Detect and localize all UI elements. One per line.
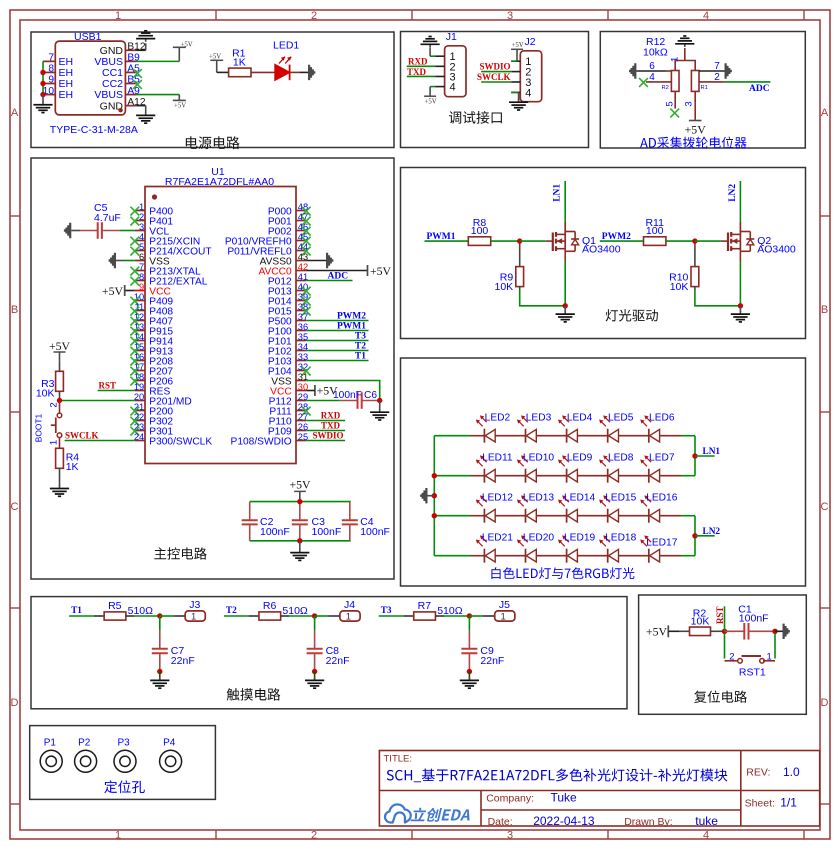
svg-text:10kΩ: 10kΩ [643,46,668,58]
svg-text:+5V: +5V [102,284,124,298]
svg-text:5: 5 [665,101,676,106]
svg-text:Company:: Company: [486,793,534,805]
svg-text:+5V: +5V [174,103,186,110]
svg-text:RXD: RXD [408,57,428,67]
svg-text:BOOT1: BOOT1 [34,413,44,442]
svg-text:+5V: +5V [370,264,392,278]
svg-text:D: D [11,697,19,709]
svg-text:C6: C6 [364,390,377,401]
svg-text:RST1: RST1 [739,666,766,678]
svg-text:B: B [821,304,828,316]
svg-text:R7FA2E1A72DFL#AA0: R7FA2E1A72DFL#AA0 [165,176,274,188]
svg-text:9: 9 [48,75,54,86]
svg-text:A: A [11,107,19,119]
svg-text:4: 4 [525,87,531,99]
svg-text:4: 4 [703,830,709,842]
svg-text:+5V: +5V [49,339,71,353]
svg-text:SWCLK: SWCLK [477,72,511,82]
svg-text:6: 6 [649,61,655,72]
svg-text:+5V: +5V [425,98,437,105]
svg-text:4: 4 [703,10,709,22]
svg-text:LED13: LED13 [523,493,554,504]
svg-text:100nF: 100nF [333,390,362,401]
svg-text:3: 3 [139,222,144,232]
svg-text:P2: P2 [78,737,91,748]
svg-text:SWCLK: SWCLK [65,431,99,441]
svg-text:P1: P1 [44,737,57,748]
svg-text:TITLE:: TITLE: [384,754,413,765]
svg-text:C: C [821,501,829,513]
svg-text:LED1: LED1 [273,40,299,52]
svg-text:7: 7 [48,53,54,64]
svg-text:24: 24 [134,432,144,442]
svg-text:R5: R5 [108,600,122,612]
svg-text:22nF: 22nF [326,655,350,667]
svg-text:LN1: LN1 [703,447,721,457]
svg-text:RXD: RXD [321,410,341,420]
svg-text:AO3400: AO3400 [757,243,796,255]
svg-text:100nF: 100nF [312,526,342,538]
svg-text:2: 2 [714,72,720,83]
svg-text:LN2: LN2 [728,184,738,202]
svg-text:RST: RST [99,381,117,391]
svg-text:R7: R7 [418,600,432,612]
svg-text:J2: J2 [525,36,536,48]
svg-text:LED11: LED11 [482,453,513,464]
svg-text:2: 2 [311,830,317,842]
svg-text:RST: RST [715,606,725,624]
svg-text:100nF: 100nF [739,613,769,625]
svg-text:19: 19 [134,382,144,392]
svg-text:1.0: 1.0 [783,765,800,779]
svg-text:P3: P3 [118,737,131,748]
svg-text:20: 20 [134,392,144,402]
svg-text:Date:: Date: [488,816,513,828]
svg-text:TXD: TXD [407,67,427,77]
svg-text:LED19: LED19 [564,533,595,544]
svg-text:1: 1 [49,440,60,445]
svg-text:+5V: +5V [209,54,221,61]
svg-text:1: 1 [191,612,196,623]
svg-text:SWDIO: SWDIO [312,430,343,440]
svg-text:J4: J4 [344,599,355,611]
svg-text:1: 1 [115,10,121,22]
svg-text:ADC: ADC [749,84,770,94]
svg-text:10K: 10K [36,387,55,399]
svg-text:6: 6 [139,252,144,262]
svg-text:LED9: LED9 [567,453,593,464]
svg-text:7: 7 [714,61,720,72]
svg-text:1: 1 [501,612,506,623]
svg-text:Drawn By:: Drawn By: [624,816,672,828]
svg-text:LED15: LED15 [605,493,636,504]
svg-text:R1: R1 [701,85,708,91]
svg-text:1: 1 [115,830,121,842]
svg-text:LED2: LED2 [485,413,511,424]
svg-text:2: 2 [311,10,317,22]
svg-text:LED12: LED12 [482,493,513,504]
svg-text:10K: 10K [670,281,689,293]
svg-text:1: 1 [139,202,144,212]
svg-text:B: B [11,304,18,316]
svg-text:22nF: 22nF [171,655,195,667]
svg-text:tuke: tuke [695,814,718,828]
svg-text:+5V: +5V [685,122,707,136]
svg-text:+5V: +5V [289,477,311,491]
svg-text:4: 4 [139,232,144,242]
svg-text:3: 3 [507,10,513,22]
svg-text:4: 4 [649,72,655,83]
svg-text:+5V: +5V [646,624,668,638]
svg-text:T3: T3 [381,606,392,616]
svg-text:+5V: +5V [512,42,524,49]
svg-text:LED10: LED10 [523,453,554,464]
svg-text:USB1: USB1 [74,31,102,43]
svg-text:100nF: 100nF [360,526,390,538]
svg-text:10K: 10K [691,615,710,627]
svg-text:3: 3 [507,830,513,842]
svg-text:LED18: LED18 [605,533,636,544]
svg-text:1: 1 [670,57,681,62]
svg-text:J5: J5 [499,599,510,611]
svg-text:LN2: LN2 [703,527,721,537]
svg-text:T1: T1 [71,606,82,616]
svg-text:P108/SWDIO: P108/SWDIO [231,436,292,447]
svg-text:7: 7 [139,262,144,272]
svg-text:22nF: 22nF [480,655,504,667]
svg-text:LED3: LED3 [526,413,552,424]
svg-text:1K: 1K [66,461,79,473]
svg-text:LED8: LED8 [608,453,634,464]
svg-text:100: 100 [646,225,664,237]
svg-text:Sheet:: Sheet: [745,798,775,810]
svg-text:2: 2 [49,402,60,407]
svg-text:T2: T2 [226,606,237,616]
svg-text:2: 2 [729,652,734,663]
svg-text:J1: J1 [446,31,457,43]
svg-text:4: 4 [450,82,456,94]
svg-text:+5V: +5V [181,41,193,48]
svg-text:J3: J3 [189,599,200,611]
svg-text:1: 1 [767,652,772,663]
svg-text:8: 8 [139,272,144,282]
svg-text:9: 9 [139,282,144,292]
svg-text:EH: EH [59,89,74,101]
svg-text:D: D [821,697,829,709]
svg-text:5: 5 [139,242,144,252]
svg-text:1/1: 1/1 [780,796,797,810]
svg-text:3: 3 [684,101,695,106]
svg-text:R2: R2 [662,85,669,91]
svg-text:TYPE-C-31-M-28A: TYPE-C-31-M-28A [50,124,138,136]
svg-text:LED5: LED5 [608,413,634,424]
svg-text:REV:: REV: [746,767,770,779]
svg-text:1K: 1K [233,57,246,69]
svg-text:A: A [821,107,829,119]
svg-text:LED14: LED14 [564,493,595,504]
svg-text:TXD: TXD [321,420,341,430]
svg-text:LED21: LED21 [482,533,513,544]
svg-text:LED7: LED7 [649,453,675,464]
svg-text:P4: P4 [163,737,176,748]
svg-text:4.7uF: 4.7uF [94,212,121,224]
svg-text:10K: 10K [495,281,514,293]
svg-text:8: 8 [48,64,54,75]
svg-text:R6: R6 [263,600,277,612]
svg-text:AO3400: AO3400 [582,243,621,255]
svg-text:100: 100 [471,225,489,237]
svg-text:C: C [11,501,19,513]
svg-text:LED20: LED20 [523,533,554,544]
svg-text:2022-04-13: 2022-04-13 [533,814,595,828]
svg-text:100nF: 100nF [260,526,290,538]
svg-text:P300/SWCLK: P300/SWCLK [149,436,212,447]
svg-text:LED16: LED16 [646,493,677,504]
svg-text:LED17: LED17 [646,538,677,549]
svg-text:2: 2 [139,212,144,222]
svg-text:LED6: LED6 [649,413,675,424]
svg-text:LED4: LED4 [567,413,593,424]
svg-text:1: 1 [346,612,351,623]
svg-text:Tuke: Tuke [551,791,578,805]
svg-text:LN1: LN1 [553,184,563,202]
svg-text:SWDIO: SWDIO [479,61,510,71]
